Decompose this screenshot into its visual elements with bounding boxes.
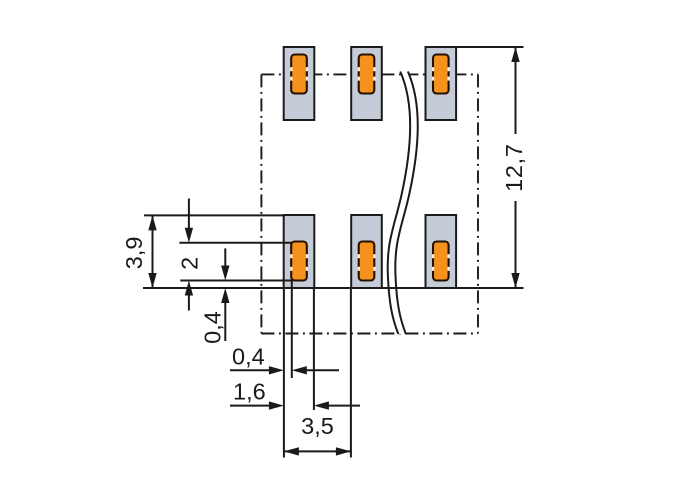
extension line pad2 left edge (vertical)	[350, 288, 352, 458]
dimension 0,4 left lower arrow (pointing up)	[221, 288, 229, 341]
pad P1 top row (gray body)	[284, 47, 315, 120]
extension line pad bottom edge (full width, y=288)	[143, 287, 524, 289]
svg-text:3,9: 3,9	[121, 237, 147, 270]
dimension 3,9 arrow down	[148, 273, 156, 288]
svg-text:0,4: 0,4	[232, 344, 265, 370]
dimension 3,5 arrow right	[336, 447, 351, 455]
dimension 12,7 line upper segment	[515, 47, 517, 134]
pad P3 top row (gray body)	[426, 47, 457, 120]
pad P5 bottom row (gray body)	[351, 215, 382, 288]
dimension 3,9 arrow up	[148, 215, 156, 230]
svg-text:12,7: 12,7	[501, 143, 527, 192]
outline top edge (dash-dot)	[261, 73, 478, 75]
dimension 12,7 arrow up	[511, 47, 519, 62]
dimension 1,6 left arrow (pointing right)	[230, 401, 284, 409]
svg-text:0,4: 0,4	[200, 311, 226, 344]
pad P6 bottom row mask dashes	[432, 254, 450, 271]
pad P4 bottom row solder pad (orange)	[291, 242, 307, 281]
dimension 3,9 top extension line	[144, 214, 285, 216]
outline bottom edge (dash-dot)	[261, 333, 478, 335]
pad P1 top row solder pad (orange)	[291, 55, 307, 94]
extension line solder pad1 left edge (vertical)	[291, 281, 293, 379]
extension line pad1 left edge (vertical)	[283, 288, 285, 458]
dimension 0,4 left upper arrow (pointing down)	[221, 248, 229, 280]
pad P2 top row (gray body)	[351, 47, 382, 120]
pad P6 bottom row solder pad (orange)	[433, 242, 449, 281]
dimension 2 upper arrow (pointing down)	[185, 199, 193, 243]
dimension 0,4 bottom left arrow (pointing right)	[230, 366, 284, 374]
dimension 1,6 right arrow (pointing left)	[314, 401, 360, 409]
break line left	[388, 72, 410, 335]
pad P4 bottom row (gray body)	[284, 215, 315, 288]
svg-text:3,5: 3,5	[301, 413, 334, 439]
pad P5 bottom row solder pad (orange)	[359, 242, 375, 281]
break line right	[395, 72, 417, 335]
dimension 3,9 line	[152, 215, 154, 288]
pad P5 bottom row mask dashes	[358, 254, 376, 271]
dimension 3,5 arrow left	[284, 447, 299, 455]
pad P6 bottom row (gray body)	[426, 215, 457, 288]
pad P2 top row solder pad (orange)	[359, 55, 375, 94]
dimension 2 bottom extension line (solder pad lower edge)	[180, 280, 292, 282]
pad P1 top row mask dashes	[290, 67, 308, 80]
outline left edge (dash-dot)	[260, 74, 262, 333]
dimension 2 lower arrow (pointing up)	[185, 281, 193, 311]
outline right edge (dash-dot)	[477, 74, 479, 333]
extension line pad1 right edge (vertical)	[313, 288, 315, 410]
dimension 12,7 arrow down	[511, 273, 519, 288]
pad P4 bottom row mask dashes	[290, 254, 308, 271]
break band (white gap between break lines)	[388, 72, 418, 335]
svg-text:2: 2	[177, 257, 203, 270]
pad P3 top row mask dashes	[432, 67, 450, 80]
dimension 2 top extension line (solder pad upper edge)	[179, 242, 292, 244]
dimension 0,4 bottom right arrow (pointing left)	[292, 366, 339, 374]
dimension 3,5 line	[284, 450, 351, 452]
dimension 12,7 line lower segment	[515, 201, 517, 288]
pad P2 top row mask dashes	[358, 67, 376, 80]
dimension 12,7 top extension line	[456, 46, 523, 48]
pad P3 top row solder pad (orange)	[433, 55, 449, 94]
svg-text:1,6: 1,6	[233, 379, 266, 405]
